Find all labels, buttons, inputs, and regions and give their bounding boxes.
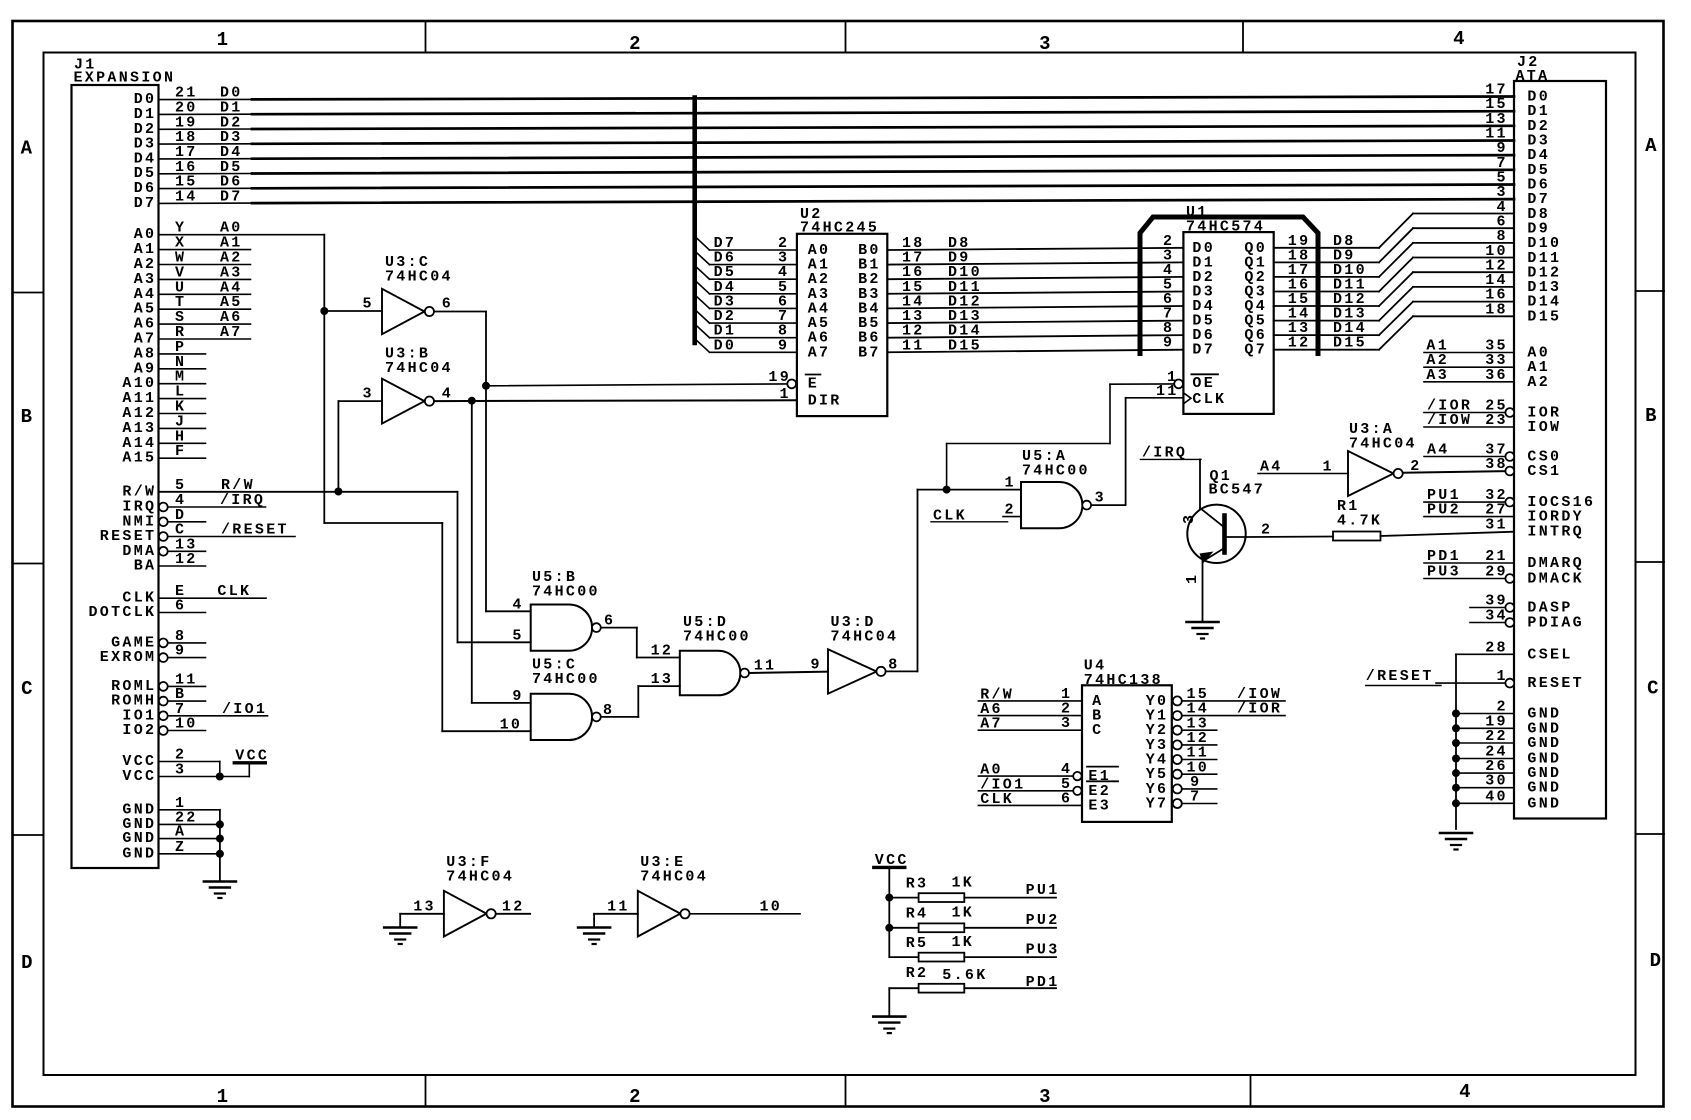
svg-text:74HC00: 74HC00 (1022, 463, 1090, 480)
svg-text:4: 4 (1459, 1081, 1473, 1103)
svg-text:1: 1 (1323, 459, 1334, 476)
svg-text:/IO1: /IO1 (222, 701, 267, 718)
svg-text:9: 9 (175, 643, 186, 660)
svg-text:1: 1 (1184, 573, 1201, 584)
svg-text:C: C (21, 678, 35, 700)
svg-text:E3: E3 (1088, 797, 1111, 814)
svg-text:6: 6 (1061, 790, 1072, 807)
svg-text:9: 9 (1163, 335, 1174, 352)
svg-text:8: 8 (888, 656, 899, 673)
svg-text:10: 10 (760, 898, 783, 915)
svg-text:C: C (1647, 678, 1661, 700)
svg-text:2: 2 (1410, 458, 1421, 475)
svg-text:A4: A4 (1260, 459, 1283, 476)
svg-text:74HC00: 74HC00 (532, 671, 600, 688)
svg-text:D15: D15 (948, 337, 982, 354)
svg-text:6: 6 (442, 296, 453, 313)
svg-text:PU2: PU2 (1026, 912, 1060, 929)
svg-text:IOW: IOW (1527, 419, 1561, 436)
svg-text:/IRQ: /IRQ (220, 492, 265, 509)
svg-text:6: 6 (175, 598, 186, 615)
svg-text:4.7K: 4.7K (1337, 513, 1382, 530)
svg-text:74HC04: 74HC04 (446, 869, 514, 886)
svg-text:R3: R3 (906, 875, 929, 892)
svg-text:36: 36 (1485, 367, 1508, 384)
svg-text:10: 10 (500, 716, 523, 733)
svg-text:14: 14 (175, 188, 198, 205)
svg-text:IO2: IO2 (122, 722, 156, 739)
svg-text:/IRQ: /IRQ (1142, 445, 1187, 462)
svg-text:F: F (175, 443, 186, 460)
svg-text:D: D (21, 952, 35, 974)
svg-text:1: 1 (1497, 668, 1508, 685)
svg-text:6: 6 (604, 613, 615, 630)
svg-text:PU1: PU1 (1026, 882, 1060, 899)
svg-text:21: 21 (1485, 548, 1508, 565)
svg-text:CLK: CLK (217, 583, 251, 600)
svg-text:19: 19 (768, 369, 791, 386)
svg-text:74HC00: 74HC00 (532, 584, 600, 601)
svg-text:BC547: BC547 (1209, 482, 1266, 499)
svg-text:B: B (1645, 405, 1659, 427)
svg-text:A4: A4 (1427, 442, 1450, 459)
svg-text:R4: R4 (906, 906, 929, 923)
svg-text:5: 5 (363, 296, 374, 313)
svg-text:2: 2 (629, 33, 643, 55)
svg-text:5: 5 (512, 627, 523, 644)
svg-text:/IOR: /IOR (1237, 701, 1282, 718)
svg-text:31: 31 (1485, 517, 1508, 534)
svg-text:12: 12 (175, 551, 198, 568)
svg-text:1: 1 (217, 29, 231, 51)
svg-text:D15: D15 (1527, 308, 1561, 325)
svg-text:VCC: VCC (122, 768, 156, 785)
svg-text:A15: A15 (122, 450, 156, 467)
svg-text:2: 2 (629, 1086, 643, 1108)
svg-text:10: 10 (175, 716, 198, 733)
svg-text:/IOW: /IOW (1427, 412, 1472, 429)
svg-text:ATA: ATA (1516, 68, 1550, 85)
svg-text:Z: Z (175, 839, 186, 856)
svg-text:A2: A2 (1527, 374, 1550, 391)
svg-text:A7: A7 (980, 716, 1003, 733)
svg-text:1K: 1K (952, 934, 975, 951)
svg-text:4: 4 (442, 386, 453, 403)
svg-text:74HC04: 74HC04 (385, 360, 453, 377)
svg-text:B7: B7 (858, 344, 881, 361)
svg-text:PU3: PU3 (1427, 564, 1461, 581)
svg-text:29: 29 (1485, 564, 1508, 581)
svg-text:PDIAG: PDIAG (1527, 615, 1584, 632)
svg-text:BA: BA (134, 558, 157, 575)
svg-text:DIR: DIR (808, 392, 842, 409)
svg-text:3: 3 (1039, 1086, 1053, 1108)
svg-text:D7: D7 (134, 195, 157, 212)
svg-text:11: 11 (1156, 383, 1179, 400)
svg-text:CLK: CLK (933, 508, 967, 525)
svg-text:R2: R2 (906, 965, 929, 982)
svg-text:22: 22 (1485, 728, 1508, 745)
svg-text:Q7: Q7 (1244, 342, 1267, 359)
svg-text:PD1: PD1 (1026, 974, 1060, 991)
svg-text:1: 1 (1005, 475, 1016, 492)
svg-text:RESET: RESET (1527, 675, 1584, 692)
svg-text:13: 13 (651, 671, 674, 688)
svg-text:9: 9 (778, 337, 789, 354)
svg-text:9: 9 (512, 688, 523, 705)
svg-text:3: 3 (175, 762, 186, 779)
svg-text:EXROM: EXROM (100, 649, 157, 666)
svg-text:DMACK: DMACK (1527, 571, 1584, 588)
svg-text:4: 4 (1453, 28, 1467, 50)
svg-text:74HC574: 74HC574 (1186, 219, 1265, 236)
svg-text:8: 8 (603, 702, 614, 719)
svg-text:PD1: PD1 (1427, 548, 1461, 565)
svg-text:13: 13 (413, 898, 436, 915)
svg-text:74HC138: 74HC138 (1084, 672, 1163, 689)
svg-text:7: 7 (1190, 789, 1201, 806)
svg-text:3: 3 (363, 386, 374, 403)
svg-text:PU3: PU3 (1026, 941, 1060, 958)
svg-text:GND: GND (122, 845, 156, 862)
svg-text:12: 12 (1288, 335, 1311, 352)
svg-text:3: 3 (1095, 490, 1106, 507)
svg-text:4: 4 (512, 596, 523, 613)
svg-text:A: A (1645, 135, 1659, 157)
svg-text:CS1: CS1 (1527, 463, 1561, 480)
svg-text:1: 1 (780, 386, 791, 403)
svg-text:9: 9 (811, 657, 822, 674)
svg-text:A7: A7 (220, 324, 243, 341)
svg-text:D0: D0 (714, 337, 737, 354)
svg-text:VCC: VCC (875, 852, 909, 869)
svg-text:PU2: PU2 (1427, 502, 1461, 519)
svg-text:GND: GND (1527, 780, 1561, 797)
svg-text:34: 34 (1485, 608, 1508, 625)
svg-text:DMARQ: DMARQ (1527, 555, 1584, 572)
svg-text:VCC: VCC (235, 747, 269, 764)
svg-text:38: 38 (1485, 456, 1508, 473)
svg-text:A3: A3 (1426, 367, 1449, 384)
svg-text:74HC04: 74HC04 (831, 629, 899, 646)
svg-text:2: 2 (1261, 522, 1272, 539)
svg-text:18: 18 (1485, 301, 1508, 318)
svg-text:30: 30 (1485, 773, 1508, 790)
svg-text:GND: GND (1527, 735, 1561, 752)
svg-text:1K: 1K (952, 905, 975, 922)
svg-text:CLK: CLK (1192, 391, 1226, 408)
svg-text:/RESET: /RESET (221, 522, 289, 539)
svg-text:OE: OE (1192, 375, 1215, 392)
svg-text:D15: D15 (1333, 335, 1367, 352)
svg-text:1K: 1K (952, 874, 975, 891)
svg-text:12: 12 (502, 898, 525, 915)
svg-text:3: 3 (1061, 715, 1072, 732)
svg-text:2: 2 (1005, 502, 1016, 519)
svg-text:11: 11 (607, 898, 630, 915)
svg-text:C: C (1092, 722, 1103, 739)
svg-text:D: D (1650, 950, 1664, 972)
svg-text:23: 23 (1485, 412, 1508, 429)
svg-text:74HC04: 74HC04 (1349, 436, 1417, 453)
svg-text:R5: R5 (906, 935, 929, 952)
svg-text:28: 28 (1485, 639, 1508, 656)
svg-text:A7: A7 (808, 344, 831, 361)
svg-text:A: A (21, 138, 35, 160)
svg-text:D7: D7 (1192, 342, 1215, 359)
svg-text:3: 3 (1039, 33, 1053, 55)
svg-text:74HC04: 74HC04 (385, 269, 453, 286)
svg-text:D7: D7 (220, 188, 243, 205)
svg-text:5.6K: 5.6K (942, 967, 987, 984)
svg-text:CSEL: CSEL (1527, 646, 1572, 663)
svg-text:74HC245: 74HC245 (800, 220, 879, 237)
svg-text:40: 40 (1485, 788, 1508, 805)
svg-text:B: B (21, 406, 35, 428)
svg-text:74HC04: 74HC04 (640, 869, 708, 886)
svg-text:12: 12 (651, 643, 674, 660)
svg-text:CLK: CLK (980, 791, 1014, 808)
svg-text:74HC00: 74HC00 (683, 629, 751, 646)
svg-text:11: 11 (754, 658, 777, 675)
svg-text:EXPANSION: EXPANSION (74, 70, 176, 87)
svg-text:INTRQ: INTRQ (1527, 524, 1584, 541)
svg-text:/RESET: /RESET (1366, 668, 1434, 685)
svg-text:1: 1 (217, 1086, 231, 1108)
svg-text:Y7: Y7 (1146, 796, 1169, 813)
svg-text:E: E (808, 376, 819, 393)
svg-text:GND: GND (1527, 795, 1561, 812)
svg-text:DOTCLK: DOTCLK (89, 604, 157, 621)
svg-text:11: 11 (902, 337, 925, 354)
svg-text:3: 3 (1181, 513, 1198, 524)
